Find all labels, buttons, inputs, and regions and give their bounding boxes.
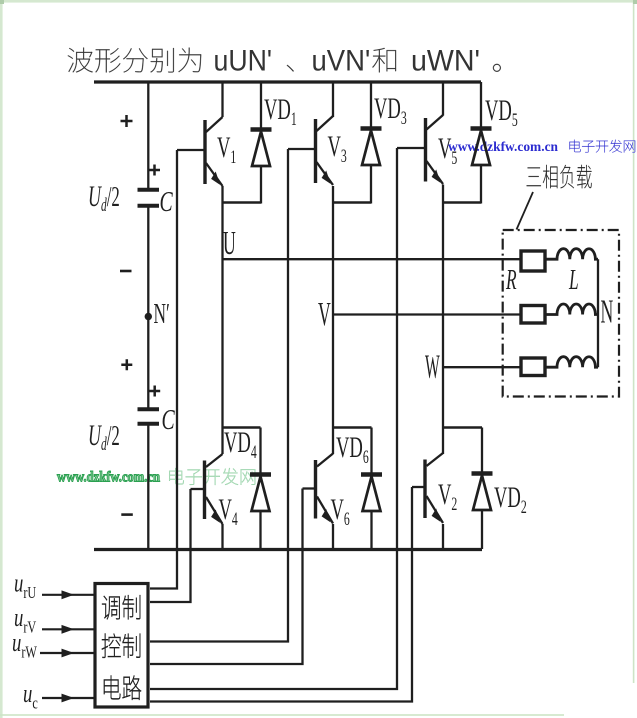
label 电路 [104, 676, 141, 700]
label V3 [328, 131, 347, 167]
svg-text:C: C [162, 404, 176, 436]
label 调制 [102, 595, 140, 619]
wire: V1 base lead [177, 149, 205, 151]
transistor V2 [425, 453, 443, 523]
wire: phase output V [333, 313, 520, 315]
label VD3 [374, 93, 407, 129]
label N (neutral) [601, 292, 614, 330]
watermark top [448, 140, 635, 155]
svg-text:uUN': uUN' [214, 45, 273, 78]
label - (lower section polarity) [121, 513, 133, 516]
pointer line to load box [517, 192, 534, 230]
label R [505, 265, 516, 296]
label N' [154, 299, 170, 330]
diode VD3 [361, 82, 382, 204]
wire: phase leg V (V3 column) [332, 82, 334, 549]
capacitor C2 (lower) [138, 409, 160, 424]
inductor L (W phase) [547, 357, 599, 367]
transistor V5 [426, 115, 444, 184]
wire: V6/VD6 collector branch [333, 426, 372, 429]
wire: V1/VD1 emitter join [223, 201, 262, 204]
label VD6 [336, 432, 369, 468]
input urW [40, 652, 94, 654]
label urU [14, 569, 37, 603]
label C (lower) [162, 404, 176, 436]
label VD1 [264, 94, 297, 130]
label urV [14, 603, 37, 637]
wire: gate drive V2 [150, 487, 412, 702]
bottom DC bus (-) [94, 548, 482, 551]
top DC bus (+) [94, 80, 481, 83]
label W [425, 347, 440, 386]
label + (capacitor C upper) [149, 165, 160, 176]
label V6 [331, 494, 350, 530]
wire: phase leg W (V5 column) [442, 82, 444, 549]
label VD4 [224, 427, 257, 463]
watermark bottom [57, 468, 255, 485]
svg-text:R: R [505, 265, 516, 296]
label + (upper left polarity) [121, 115, 133, 127]
label 控制 [102, 634, 141, 658]
wire: V6 base lead [303, 487, 316, 489]
wire: V5/VD5 emitter join [443, 201, 481, 204]
label C (upper) [160, 186, 174, 218]
wire: neutral bus N [597, 259, 599, 367]
svg-text:L: L [568, 265, 578, 296]
svg-text:W: W [425, 347, 440, 386]
svg-text:V: V [318, 295, 331, 333]
label V5 [438, 133, 457, 169]
three-phase load box [503, 230, 619, 397]
svg-text:uWN': uWN' [411, 45, 480, 78]
transistor V1 [205, 117, 223, 186]
wire: phase leg U (V1 collector/emitter column) [221, 82, 223, 549]
svg-text:uVN': uVN' [312, 45, 371, 78]
label VD2 [494, 482, 527, 518]
label U [223, 224, 236, 262]
wire: gate drive V5 [150, 148, 397, 689]
transistor V3 [316, 116, 334, 185]
inductor L (U phase) [547, 249, 599, 259]
input urV [42, 628, 94, 630]
label V2 [438, 479, 457, 515]
wire: V4/VD4 collector branch [223, 426, 261, 429]
label V4 [219, 494, 238, 530]
label uc [23, 679, 38, 713]
label Ud/2 (upper) [88, 181, 120, 216]
label - (upper section polarity) [120, 270, 132, 273]
wire: gate drive V3 [150, 149, 288, 642]
resistor R (U phase) [521, 251, 545, 271]
label + (capacitor C lower) [149, 386, 160, 397]
svg-text:N′: N′ [154, 299, 170, 330]
wire: gate drive V1 [150, 150, 177, 589]
svg-text:www.dzkfw.com.cn: www.dzkfw.com.cn [57, 470, 160, 486]
wire: V5 base lead [397, 147, 426, 149]
label 三相负载 [527, 165, 592, 188]
svg-text:N: N [601, 292, 614, 330]
input urU [42, 594, 94, 596]
wire: V3 base lead [288, 148, 316, 150]
label V [318, 295, 331, 333]
wire: left DC rail [147, 82, 149, 549]
svg-text:U: U [223, 224, 236, 262]
resistor R (W phase) [521, 358, 545, 376]
inductor L (V phase) [547, 304, 599, 315]
label L [568, 265, 578, 296]
wire: gate drive V4 [150, 489, 191, 602]
label + (lower section polarity) [121, 359, 132, 370]
node N' [145, 313, 152, 320]
wire: phase output U [223, 258, 520, 260]
input uc [42, 697, 94, 699]
diode VD2 [472, 428, 493, 550]
capacitor C1 (upper) [138, 190, 160, 206]
wire: phase output W [443, 366, 520, 368]
transistor V6 [316, 454, 334, 524]
svg-text:C: C [160, 186, 174, 218]
diode VD6 [361, 428, 382, 550]
diode VD4 [250, 428, 271, 550]
svg-text:www.dzkfw.com.cn: www.dzkfw.com.cn [448, 140, 558, 155]
wire: V2/VD2 collector branch [443, 426, 482, 429]
title text [68, 45, 501, 78]
label urW [12, 628, 37, 662]
label V1 [217, 132, 236, 168]
wire: gate drive V6 [150, 489, 303, 665]
transistor V4 [205, 454, 223, 524]
resistor R (V phase) [521, 306, 545, 324]
wire: V2 base lead [412, 486, 425, 488]
wire: V4 base lead [191, 488, 205, 490]
label Ud/2 (lower) [88, 420, 120, 455]
diode VD5 [471, 82, 492, 204]
diode VD1 [251, 82, 272, 204]
wire: V3/VD3 emitter join [333, 201, 371, 204]
label VD5 [485, 95, 518, 131]
control box 调制控制电路 [95, 584, 148, 708]
